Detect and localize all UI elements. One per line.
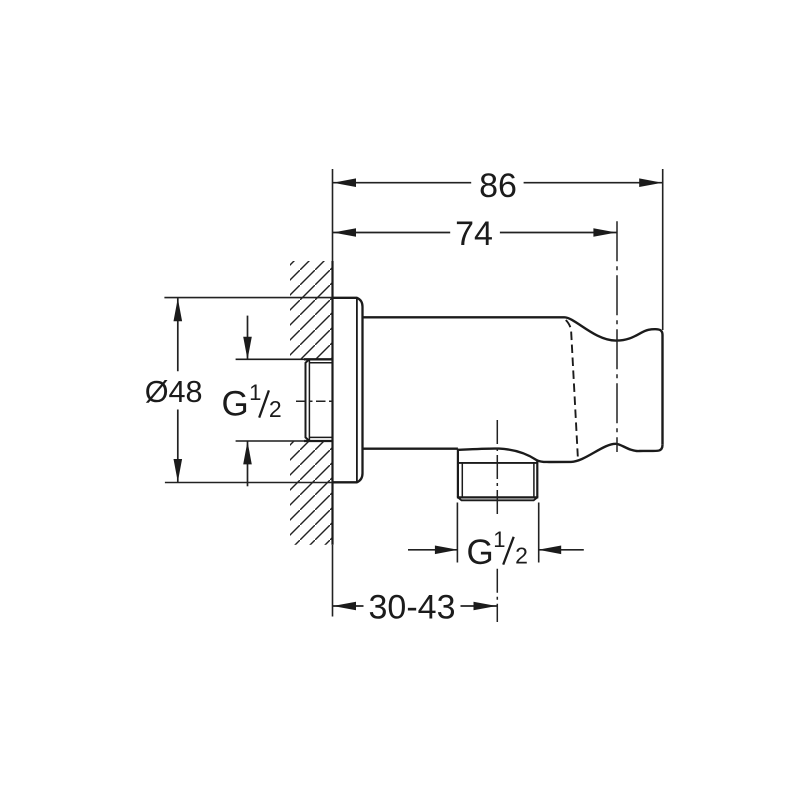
svg-text:2: 2 (269, 396, 282, 422)
dim G12 bottom line right (539, 549, 584, 551)
svg-text:74: 74 (455, 215, 493, 253)
dim G12 left arrow upper shaft (247, 316, 249, 360)
svg-text:30-43: 30-43 (369, 589, 456, 627)
outlet nipple thread minor right (533, 463, 535, 498)
svg-text:Ø48: Ø48 (145, 375, 203, 409)
svg-text:1: 1 (249, 380, 261, 405)
dim D48 line upper (177, 298, 179, 371)
dim 86 extension right (662, 169, 664, 330)
dim G12 left arrow down (243, 337, 252, 360)
inlet top edge thick (304, 358, 333, 360)
holder top profile (565, 317, 663, 445)
dim 86 arrow left (333, 178, 356, 187)
dim G12 left arrow up (243, 441, 252, 464)
dim D48 arrow up (174, 298, 183, 321)
inlet left edge (306, 359, 310, 441)
svg-text:G: G (467, 533, 494, 572)
dim G12 bottom line left (408, 549, 457, 551)
dim D48 extension top (164, 297, 332, 299)
dim 74 arrow left (333, 228, 356, 237)
holder centerline (616, 221, 618, 452)
wall hatch upper (290, 261, 333, 359)
outlet nipple centerline upper (496, 420, 498, 518)
holder bottom profile (458, 444, 663, 462)
wall hatch lower (290, 442, 333, 545)
svg-text:1: 1 (493, 527, 505, 552)
dim 30-43 line right (461, 605, 498, 607)
dim G12 bottom slash (503, 537, 514, 565)
dim G12 bottom arrow left-point (538, 546, 561, 555)
dim G12 left arrow lower shaft (247, 442, 249, 487)
dim G12 bottom extension left (456, 503, 458, 563)
svg-text:86: 86 (479, 167, 517, 205)
flange chamfer line (356, 299, 358, 482)
dim D48 extension bottom (165, 482, 332, 484)
dim 74 arrow right (593, 228, 616, 237)
outlet nipple end face (458, 497, 537, 500)
inlet top edge (236, 358, 333, 360)
svg-text:G: G (222, 385, 249, 424)
holder hidden edge dashed (566, 320, 578, 457)
dim 86 line (333, 182, 472, 184)
wall face line upper extension (332, 169, 334, 261)
inlet thread bottom minor (309, 436, 332, 438)
dim D48 arrow down (174, 459, 183, 482)
wall face line (331, 261, 333, 545)
inlet thread top minor (309, 362, 332, 364)
inlet bottom edge (236, 440, 333, 442)
body bottom edge (363, 448, 458, 450)
svg-text:2: 2 (515, 543, 528, 569)
outlet nipple right edge (536, 461, 538, 498)
inlet bottom edge thick (304, 440, 333, 442)
wall face line lower extension (332, 545, 334, 617)
outlet nipple thread line (458, 462, 537, 464)
outlet nipple left edge (457, 449, 459, 498)
dim 30-43 arrow left (333, 602, 356, 611)
dim D48 line lower (177, 410, 179, 483)
dim G12 bottom extension right (538, 503, 540, 563)
outlet nipple thread minor left (461, 463, 463, 498)
dim G12 bottom arrow right-point (435, 546, 458, 555)
dim G12 left slash (259, 390, 269, 417)
dim 86 arrow right (639, 178, 662, 187)
inlet thread inner line (308, 359, 310, 441)
flange outline (333, 298, 363, 483)
outlet nipple centerline lower (496, 569, 498, 622)
dim 74 line (333, 232, 451, 234)
dim 30-43 arrow right (474, 602, 497, 611)
inlet centerline (296, 400, 333, 402)
outlet nipple bottom edge (457, 496, 538, 498)
body top edge (363, 316, 565, 318)
dim 30-43 line left (333, 605, 364, 607)
